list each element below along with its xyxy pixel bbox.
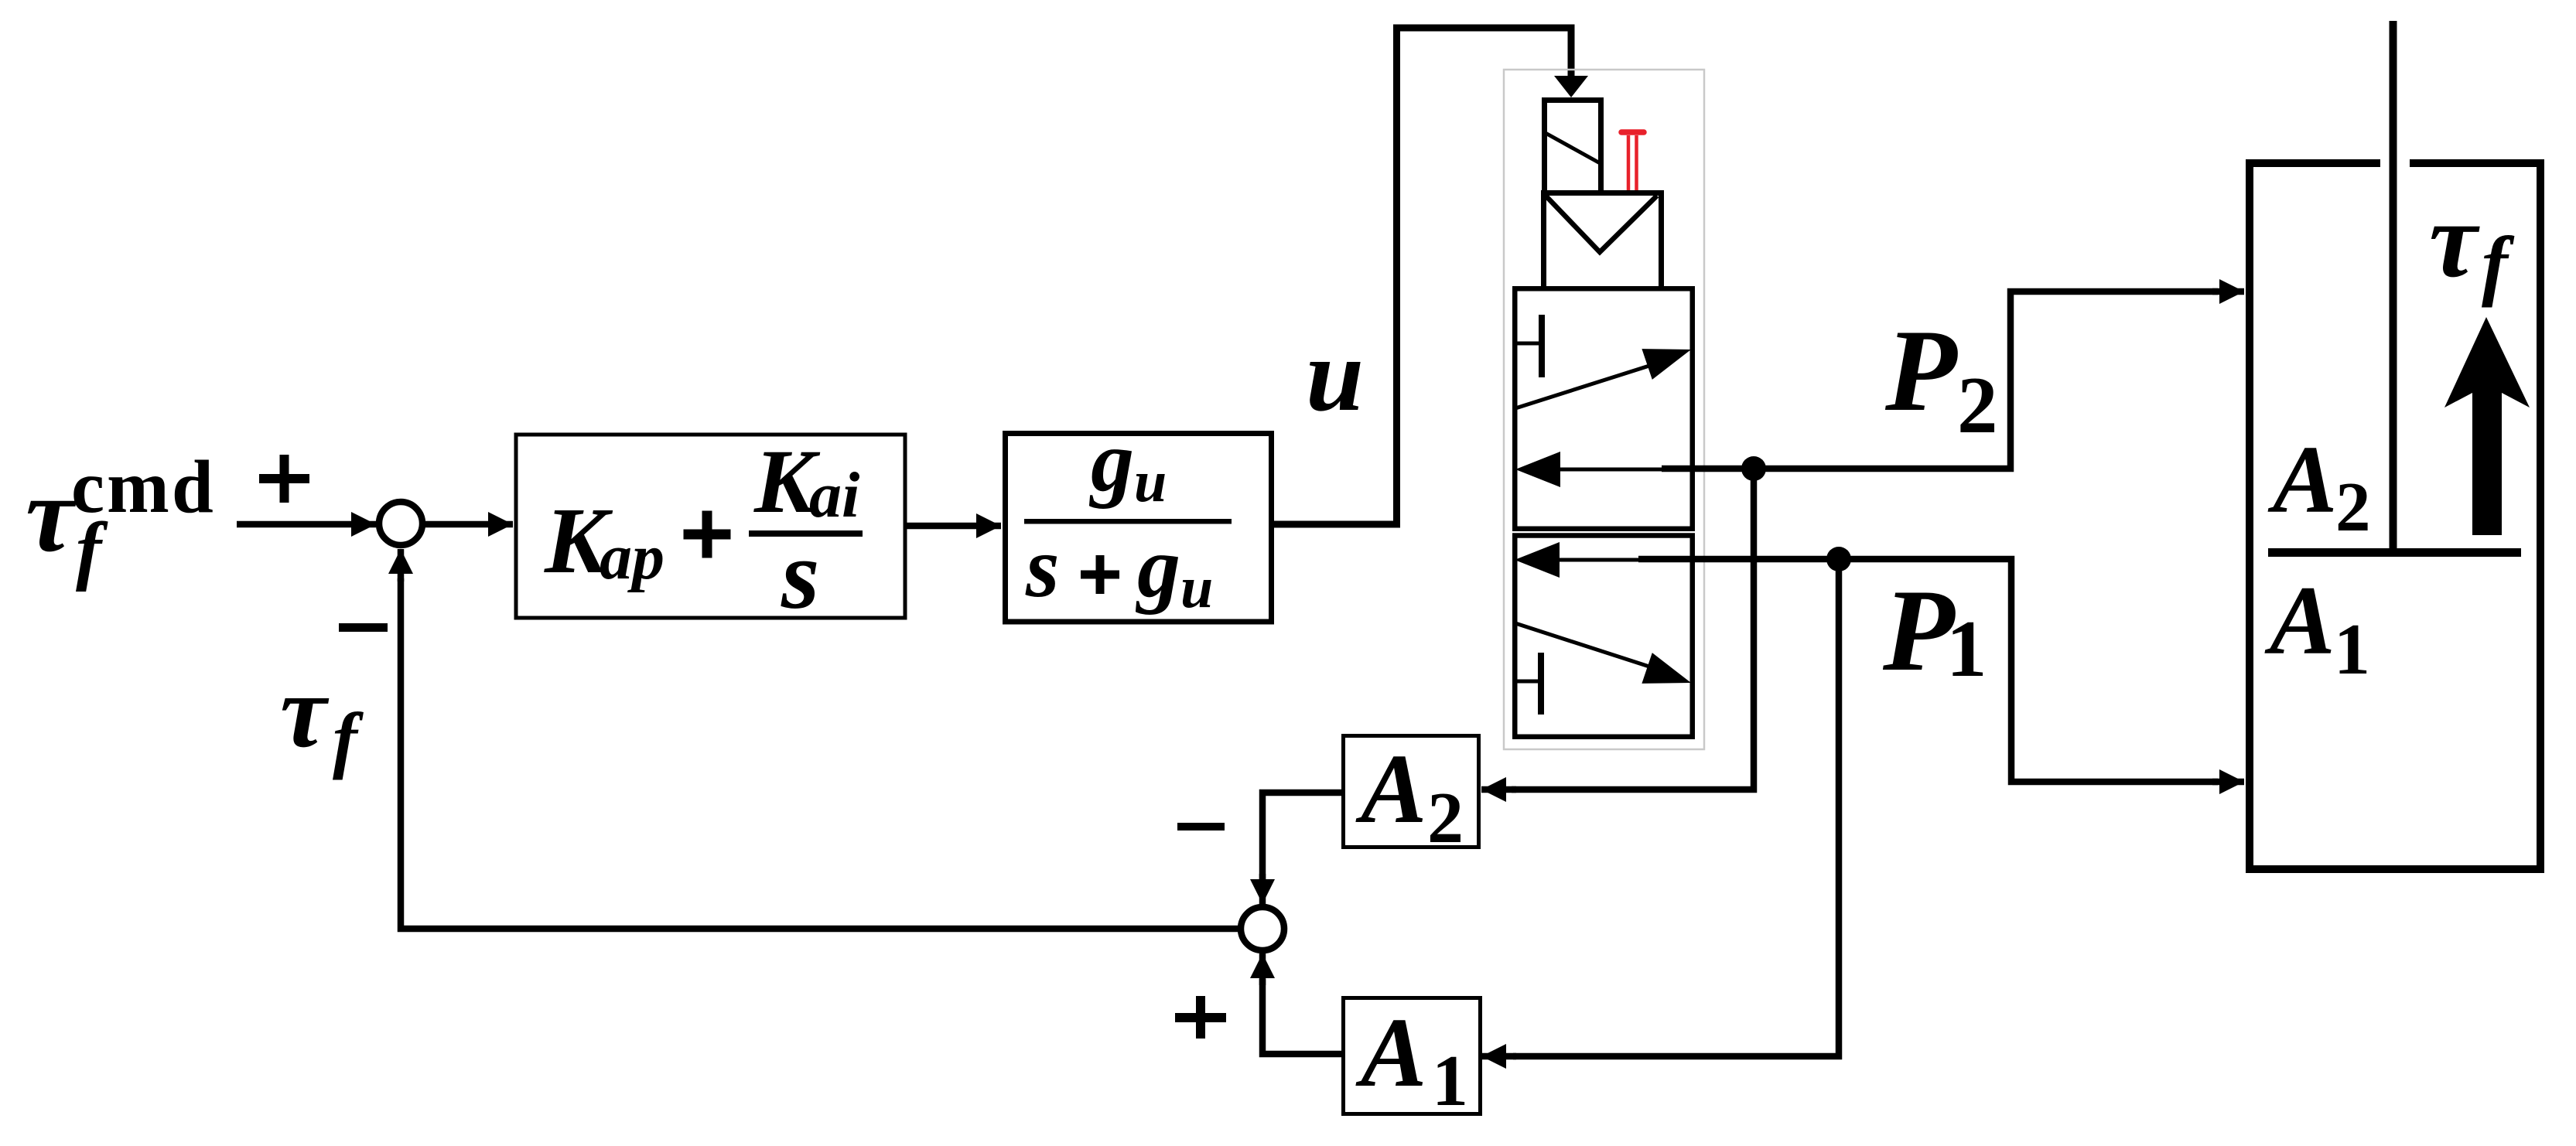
svg-text:ap: ap — [600, 521, 664, 593]
svg-text:g: g — [1088, 414, 1134, 510]
summing junction S1 — [379, 502, 422, 545]
valve chamber 2 diagonal flow arrow — [1515, 623, 1649, 667]
valve body chamber 1 — [1515, 288, 1693, 529]
valve chamber 1 blocked port T — [1539, 315, 1545, 377]
node junction dot on P2 — [1741, 456, 1766, 481]
summing junction S2 — [1241, 907, 1284, 950]
svg-text:2: 2 — [2335, 468, 2371, 546]
wire P2 junction down to gain block A2 — [1512, 466, 1754, 790]
valve chamber 1 diagonal flow arrow — [1515, 366, 1649, 408]
node tau_f output label — [2429, 180, 2515, 309]
svg-text:s: s — [1025, 520, 1060, 616]
valve chamber 2 left flow arrow to P1 — [1560, 558, 1655, 562]
svg-text:2: 2 — [1957, 360, 1998, 450]
svg-text:A: A — [2264, 567, 2335, 675]
valve chamber 2 blocked port T — [1538, 653, 1544, 715]
svg-text:τ: τ — [280, 654, 330, 769]
svg-text:2: 2 — [1427, 778, 1464, 858]
node junction dot on P1 — [1826, 547, 1851, 571]
wire P1 junction down to gain block A1 — [1513, 556, 1839, 1056]
gain block A2 — [1344, 734, 1479, 858]
valve envelope V — [1546, 196, 1657, 252]
valve chamber 1 left flow arrow to P2 — [1560, 468, 1663, 472]
minus sign at S2 top input — [1177, 823, 1225, 831]
svg-text:τ: τ — [2429, 180, 2480, 300]
svg-text:1: 1 — [2334, 609, 2370, 690]
svg-text:f: f — [2482, 221, 2515, 309]
svg-text:1: 1 — [1432, 1041, 1468, 1121]
node A2 label in cylinder — [2267, 427, 2371, 546]
valve spring envelope box — [1544, 193, 1662, 287]
node tau_f cmd input label — [26, 445, 216, 592]
minus sign at S1 feedback input — [339, 623, 388, 632]
gain block A1 — [1344, 998, 1481, 1121]
wire S1 to PI block — [425, 521, 513, 528]
node A1 label in cylinder — [2264, 567, 2370, 690]
node tau_f feedback label — [280, 654, 364, 780]
valve body chamber 2 — [1515, 536, 1693, 737]
wire PI block to gu block — [907, 523, 1001, 530]
block PI controller Kap + Kai/s — [516, 431, 905, 629]
plus sign at S2 bottom input — [1175, 996, 1226, 1039]
svg-text:u: u — [1306, 318, 1364, 433]
svg-text:A: A — [2267, 427, 2337, 534]
valve red lever symbol — [1621, 132, 1644, 190]
block valve dynamics gu/(s+gu) — [1006, 414, 1272, 622]
wire gu output up over to valve input — [1274, 28, 1571, 524]
node P2 label — [1884, 305, 1998, 450]
svg-text:A: A — [1355, 998, 1426, 1107]
force arrow up — [2444, 317, 2530, 535]
svg-text:A: A — [1355, 734, 1426, 844]
svg-text:f: f — [333, 697, 364, 780]
cylinder block body — [2250, 163, 2540, 869]
svg-text:u: u — [1180, 555, 1213, 620]
svg-text:P: P — [1882, 565, 1956, 695]
cylinder piston rod — [2390, 21, 2397, 552]
wire arrowhead down into valve solenoid — [1554, 76, 1588, 97]
wire P1 from valve to cylinder — [1638, 559, 2218, 782]
svg-text:g: g — [1135, 520, 1180, 616]
valve image frame — [1504, 70, 1704, 749]
wire S2 output feedback to S1 — [401, 578, 1241, 929]
wire P2 from valve to cylinder — [1662, 292, 2218, 469]
wire input arrow into S1 — [237, 521, 376, 528]
svg-text:u: u — [1134, 449, 1167, 514]
wire A2 output to summing junction S2 — [1262, 793, 1341, 882]
valve proportional solenoid box — [1545, 101, 1601, 191]
node P1 label — [1882, 565, 1987, 695]
svg-text:P: P — [1884, 305, 1958, 435]
valve solenoid diagonal — [1544, 132, 1601, 164]
svg-text:s: s — [781, 521, 819, 629]
cylinder piston plate / fraction bar — [2268, 548, 2521, 557]
plus sign at summing junction S1 — [259, 455, 309, 503]
svg-text:1: 1 — [1946, 603, 1987, 694]
wire A1 output to summing junction S2 — [1262, 979, 1341, 1054]
svg-text:τ: τ — [26, 455, 77, 575]
